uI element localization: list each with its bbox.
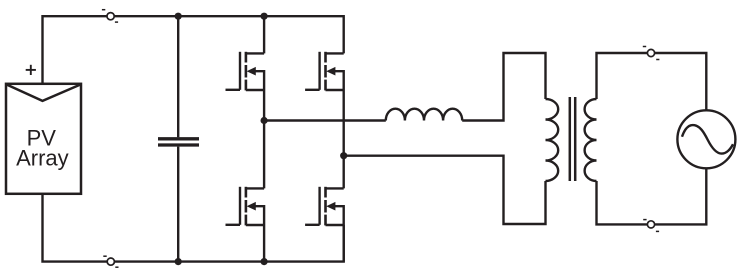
junction: bottom rail / capacitor: [175, 258, 182, 265]
label: PV array plus polarity: [26, 65, 36, 75]
svg-text:Array: Array: [16, 145, 69, 170]
transformer T1 secondary winding: [585, 99, 597, 181]
terminal: AC output bottom: [643, 220, 659, 232]
junction: node A (leg 1 midpoint): [261, 117, 268, 124]
wire: capacitor bottom lead: [177, 147, 179, 262]
terminal: DC negative bus tap (bottom): [103, 256, 118, 267]
wire: top rail from PV positive lead to leg 2 drain: [43, 16, 344, 84]
wire: secondary loop top (to AC grid): [597, 53, 707, 111]
wire: capacitor top lead: [177, 16, 179, 137]
transistor Q2 (H-bridge upper right MOSFET): [305, 52, 344, 91]
junction: top rail / capacitor: [175, 13, 182, 20]
wire: leg 2 Q4 source to bottom rail: [343, 225, 345, 262]
transistor Q3 (H-bridge lower left MOSFET): [226, 187, 265, 226]
terminal: DC positive bus tap (top): [102, 10, 118, 22]
transformer T1 primary winding: [546, 99, 559, 181]
wire: node B output to transformer primary bottom: [344, 156, 546, 224]
terminal: AC output top: [643, 47, 660, 60]
capacitor C1 plate top: [158, 137, 199, 140]
junction: top rail / leg 1: [261, 13, 268, 20]
transformer T1 core line 2: [574, 97, 577, 181]
transistor Q4 (H-bridge lower right MOSFET): [305, 187, 344, 226]
wire: inductor to transformer primary top: [462, 53, 545, 121]
junction: node B (leg 2 midpoint): [340, 152, 347, 159]
wire: leg 1 midpoint (Q1 source to Q3 drain): [263, 90, 265, 188]
wire: node A output to inductor: [264, 119, 386, 121]
wire: secondary loop bottom: [597, 168, 707, 224]
transformer T1 core line 1: [569, 97, 572, 181]
wire: bottom rail from PV negative lead to leg 2 source: [43, 194, 344, 262]
AC source V1 (grid): [677, 110, 735, 168]
inductor L1: [386, 109, 462, 121]
junction: bottom rail / leg 1: [261, 258, 268, 265]
wire: leg 1 Q3 source to bottom rail: [263, 225, 265, 262]
PV array source: box: [6, 84, 81, 194]
transistor Q1 (H-bridge upper left MOSFET): [226, 52, 265, 91]
wire: leg 1 drain lead of Q1: [263, 16, 265, 53]
capacitor C1 plate bottom: [158, 143, 199, 146]
wire: leg 2 midpoint (Q2 source to Q4 drain): [343, 90, 345, 188]
